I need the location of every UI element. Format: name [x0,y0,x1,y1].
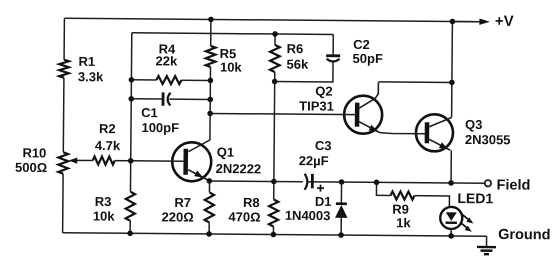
transistor Q2 base bar [355,103,360,127]
svg-text:LED1: LED1 [457,190,493,206]
svg-text:220Ω: 220Ω [161,209,193,224]
resistor R8 [269,199,278,226]
transistor Q2 circle [344,96,382,134]
svg-text:1N4003: 1N4003 [285,208,331,223]
LED1 cathode bar [446,222,457,224]
wire R9 to LED [414,196,449,208]
svg-text:50pF: 50pF [353,51,384,66]
wire C2 top lead [332,34,334,54]
wire R6 top lead [274,34,276,45]
svg-text:R3: R3 [95,194,112,209]
wire Q1 collector lead [188,113,210,152]
svg-text:Q2: Q2 [315,84,332,99]
LED1 triangle [446,212,457,221]
wire left rail middle [62,78,65,152]
svg-text:Field: Field [496,177,530,193]
capacitor C3 [303,177,307,186]
transistor Q3 emitter [429,139,450,150]
LED1 circle [440,207,462,229]
svg-text:2N3055: 2N3055 [465,132,511,147]
transistor Q2 emitter [359,122,380,133]
wire D1 bottom lead [340,218,342,235]
transistor Q1 emitter [188,170,209,180]
svg-text:R8: R8 [243,195,260,210]
wire Q3 collector column [451,21,454,117]
svg-text:4.7k: 4.7k [95,138,121,153]
wire left rail lower [62,174,64,233]
resistor R7 [205,192,214,222]
wire R5 bottom to C1 node [209,67,211,113]
wire C1 right lead [169,98,210,100]
wire R6/R8 column [273,81,276,181]
wire R4 left lead [131,79,156,81]
wire box left column x=131 [131,33,132,161]
svg-text:10k: 10k [220,60,243,75]
wire Q3 emitter to field row [450,150,452,182]
wire R7 top lead [208,181,210,192]
svg-text:+V: +V [495,13,514,30]
svg-text:C2: C2 [353,37,370,52]
svg-text:2N2222: 2N2222 [216,161,262,176]
svg-text:Ground: Ground [498,227,550,243]
wire Q2 emitter to Q3 base [380,133,425,134]
resistor R3 [126,192,135,221]
wire R8 to ground rail [272,226,274,234]
svg-text:C1: C1 [141,105,158,120]
C3 plus sign [317,185,324,192]
svg-text:TIP31: TIP31 [299,98,334,113]
svg-text:R6: R6 [287,41,304,56]
wire top +V rail [64,18,480,21]
svg-text:Q3: Q3 [465,117,482,132]
transistor Q1 base bar [183,149,188,175]
transistor Q3 base bar [425,122,430,143]
svg-text:R7: R7 [174,195,191,210]
ground symbol [486,236,488,247]
resistor R1 [59,60,69,78]
wire R4 right lead [181,79,210,81]
svg-text:56k: 56k [286,57,309,72]
svg-text:10k: 10k [93,208,116,223]
resistor R2 [93,156,115,164]
wire D1 top lead [340,182,342,203]
svg-text:22k: 22k [155,53,178,68]
svg-text:Q1: Q1 [217,145,234,160]
wire R2 right lead [115,160,131,162]
transistor Q2 collector [359,82,378,108]
wire left rail upper [63,18,65,59]
svg-text:C3: C3 [315,138,332,153]
LED1 emission arrows [462,214,470,221]
svg-text:3.3k: 3.3k [78,69,104,84]
terminal Field circle [485,180,491,186]
svg-text:D1: D1 [315,194,332,209]
svg-text:470Ω: 470Ω [228,209,260,224]
wire emitter/field row [209,181,484,183]
wire C1 left lead [131,98,162,100]
resistor R9 [390,191,414,199]
resistor R6 [270,45,280,72]
+V arrow [452,20,479,22]
R10 wiper arrow [76,159,93,161]
svg-text:R2: R2 [99,121,116,136]
resistor R4 [156,76,181,84]
transistor Q1 circle [172,142,211,181]
resistor R10 (pot) [58,152,68,174]
svg-text:R10: R10 [22,145,46,160]
wire R7 to ground rail [208,222,210,233]
wire R9 drop [376,182,390,195]
wire box top (R4/C1/C2 net) [132,33,333,35]
resistor R5 [206,46,216,67]
svg-text:1k: 1k [396,215,411,230]
transistor Q3 collector [429,117,451,127]
wire R8 top lead [273,181,275,199]
svg-text:22µF: 22µF [299,153,329,168]
wire R6 bottom lead [274,72,276,81]
wire C2 bottom to R6 node [275,61,333,81]
wire R5 top lead [210,19,212,45]
wire bottom ground rail [63,233,487,237]
capacitor C2 [326,54,340,57]
wire Q2 collector row [378,81,451,84]
wire R3 to ground rail [129,221,131,233]
capacitor C1 [162,92,165,105]
wire LED1 to ground rail [450,229,452,236]
diode D1 [336,202,347,205]
wire Q2 base row [210,113,355,114]
transistor Q3 circle [416,114,453,151]
wire R3 column upper [129,161,131,192]
svg-text:500Ω: 500Ω [15,160,47,175]
junction dots [208,17,214,23]
svg-text:R1: R1 [78,54,95,69]
wire Q1 base lead [131,160,184,162]
svg-text:100pF: 100pF [141,120,179,135]
